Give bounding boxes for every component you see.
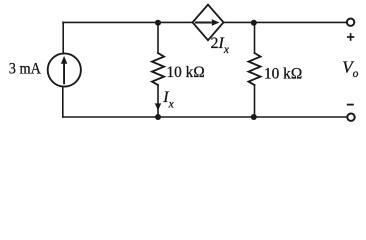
wire left vertical upper bbox=[62, 22, 64, 53]
plus sign bbox=[347, 33, 354, 41]
dependent source arrow (right) bbox=[195, 19, 220, 26]
resistor R1 zigzag bbox=[152, 53, 164, 85]
svg-text:10 kΩ: 10 kΩ bbox=[264, 66, 302, 83]
resistor R2 zigzag bbox=[249, 53, 261, 85]
svg-text:2Ix: 2Ix bbox=[211, 35, 230, 56]
wire top-right horizontal bbox=[224, 21, 347, 23]
terminal + output bbox=[347, 19, 354, 26]
junction node dot top R1 bbox=[155, 20, 161, 26]
Ix arrow (down, on R1 lower wire) bbox=[155, 103, 161, 110]
svg-text:3 mA: 3 mA bbox=[9, 61, 42, 78]
svg-text:10 kΩ: 10 kΩ bbox=[167, 64, 205, 81]
minus sign bbox=[347, 104, 354, 106]
wire top-left horizontal bbox=[63, 21, 193, 23]
junction node dot bottom R1 bbox=[155, 114, 161, 120]
svg-text:Ix: Ix bbox=[162, 89, 174, 111]
wire left vertical lower bbox=[62, 86, 64, 117]
current source arrow (up) bbox=[61, 56, 67, 84]
junction node dot bottom R2 bbox=[251, 114, 257, 120]
dependent source diamond bbox=[193, 5, 224, 41]
terminal - output bbox=[347, 114, 354, 121]
wire R2 top bbox=[254, 23, 256, 53]
wire R1 top bbox=[157, 23, 159, 53]
junction node dot top R2 bbox=[251, 20, 257, 26]
current source I1 circle bbox=[48, 53, 81, 86]
wire R1 bottom bbox=[157, 85, 159, 116]
svg-text:Vo: Vo bbox=[342, 57, 358, 80]
wire bottom horizontal bbox=[63, 116, 346, 118]
wire R2 bottom bbox=[254, 85, 256, 117]
